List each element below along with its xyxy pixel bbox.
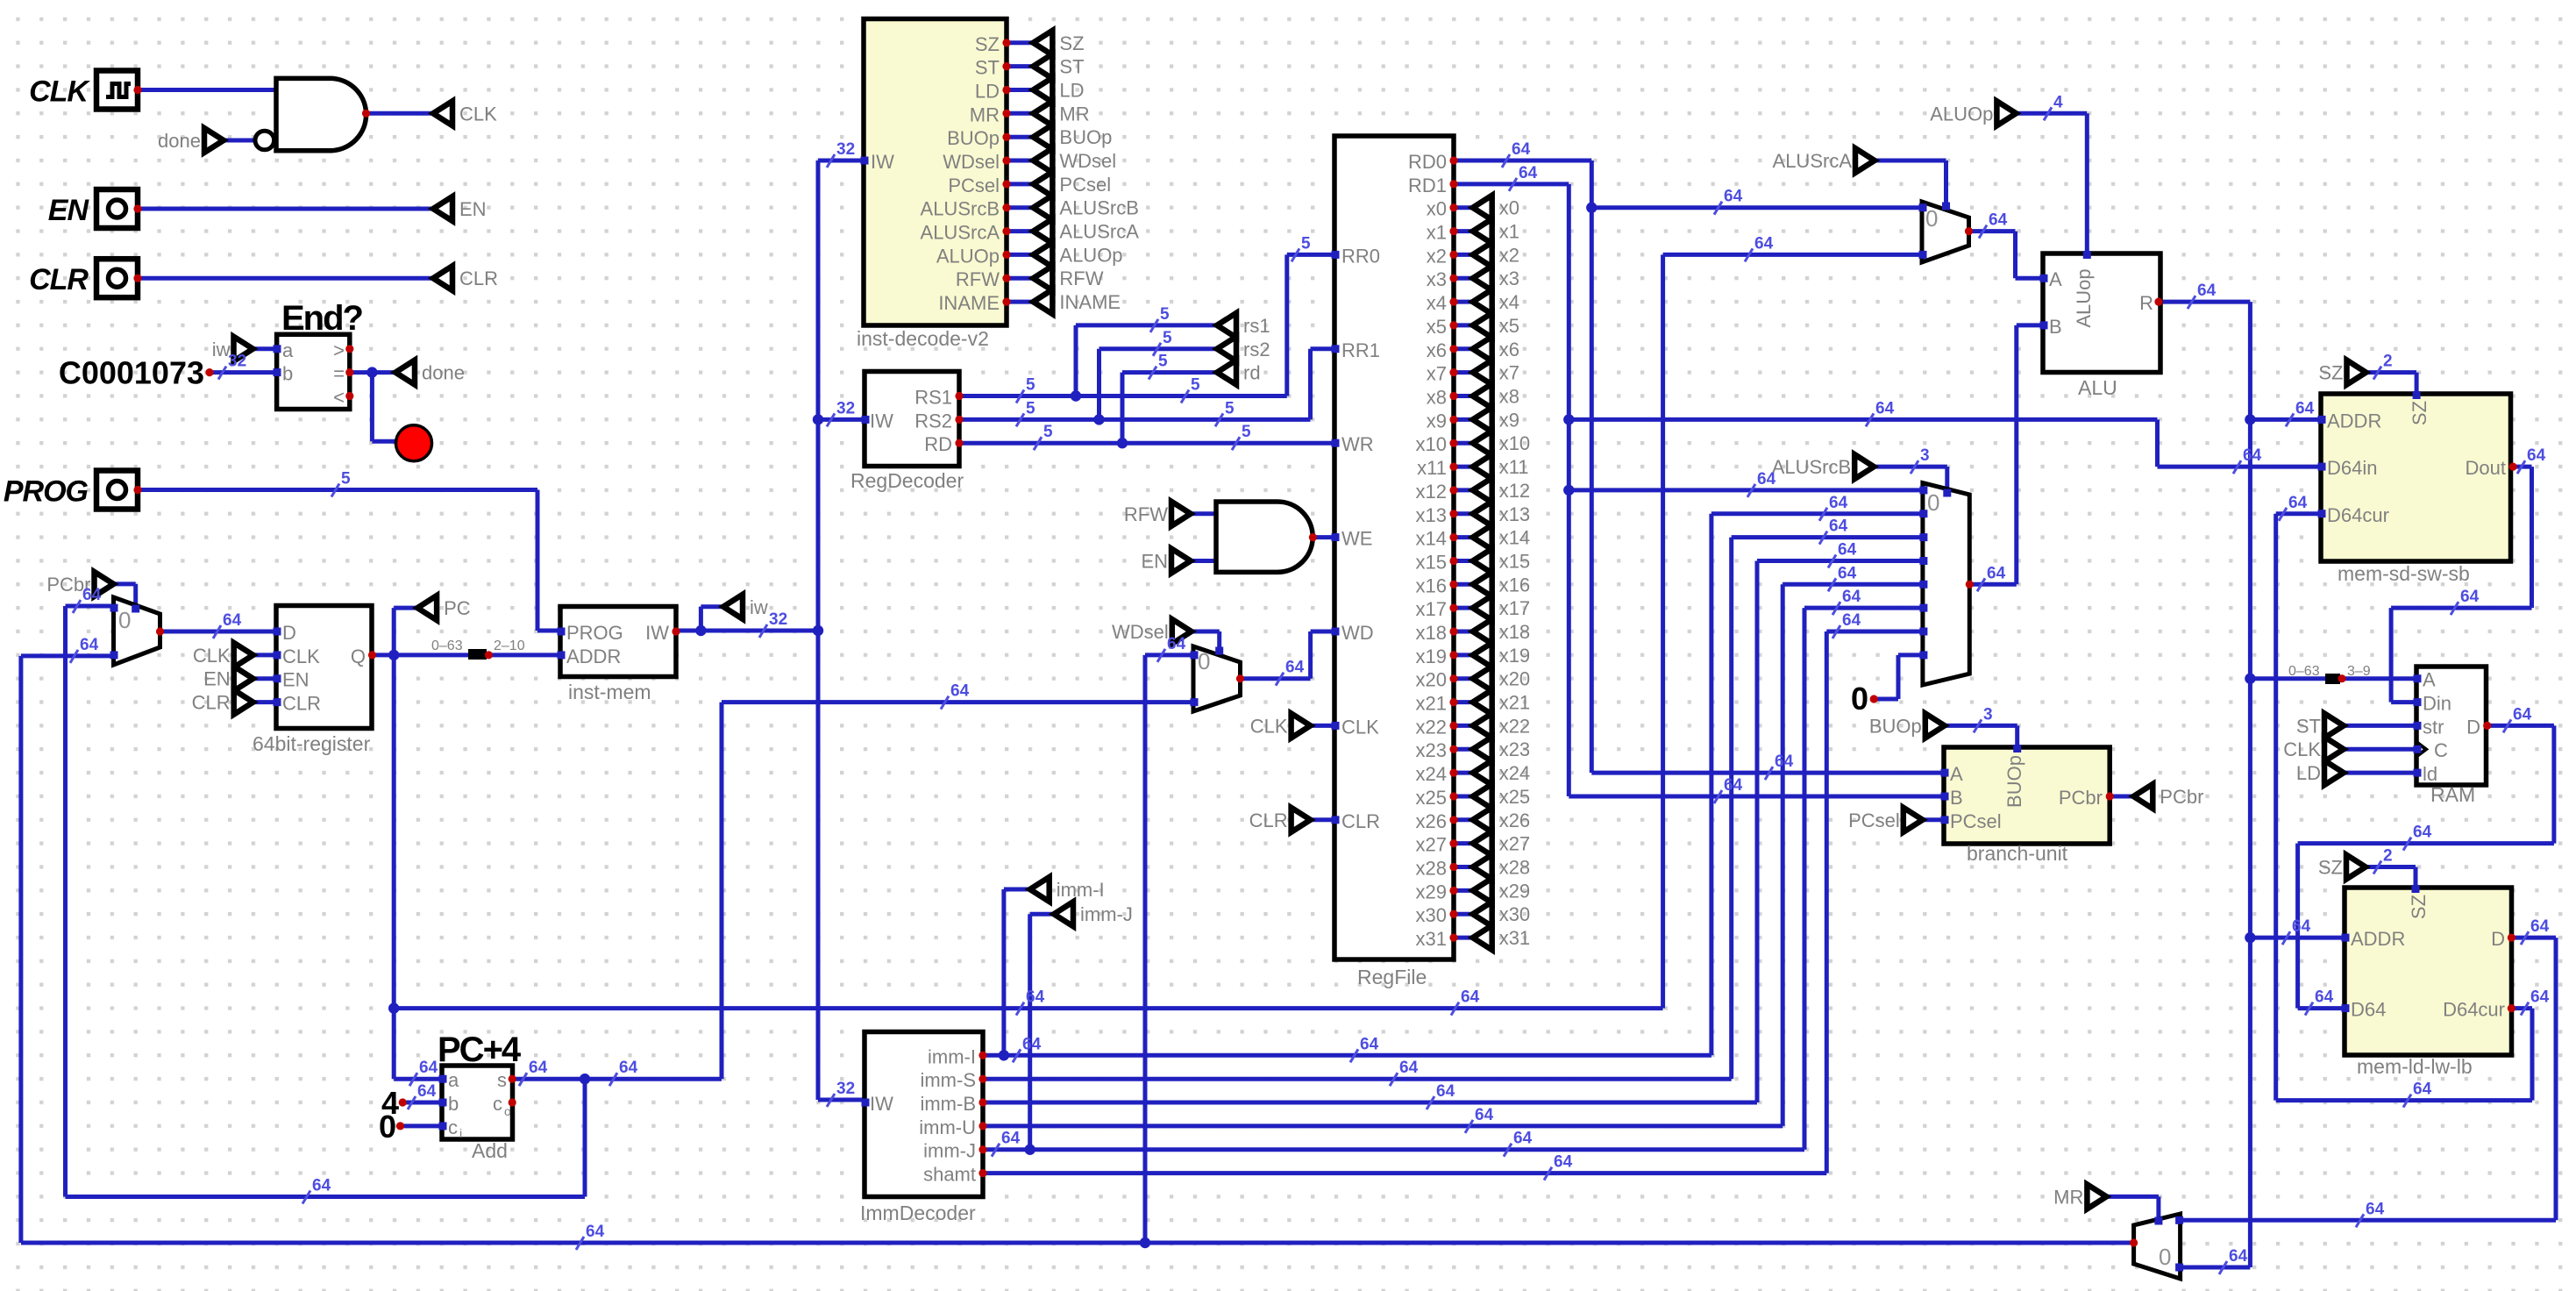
- tunnel LD (source): [2324, 760, 2344, 785]
- tunnel PC (sink): [417, 596, 437, 620]
- svg-text:5: 5: [1225, 399, 1235, 417]
- tunnel PCsel (source): [1904, 808, 1923, 832]
- svg-text:x30: x30: [1499, 903, 1530, 925]
- tunnel PCbr (sink): [2133, 784, 2153, 809]
- svg-text:64: 64: [1461, 988, 1480, 1007]
- svg-text:64: 64: [1842, 611, 1861, 630]
- wire RFW tunnel to WE gate: [1191, 511, 1216, 516]
- svg-text:64: 64: [223, 611, 242, 630]
- svg-text:64: 64: [2197, 282, 2217, 300]
- svg-text:x6: x6: [1427, 339, 1447, 361]
- svg-text:SZ: SZ: [2408, 895, 2430, 919]
- wire EN tunnel to WE gate: [1191, 559, 1216, 563]
- svg-text:64: 64: [1167, 635, 1186, 653]
- svg-text:x13: x13: [1416, 504, 1447, 526]
- svg-text:RS1: RS1: [914, 387, 952, 409]
- tunnel BUOp (source): [1925, 713, 1945, 738]
- wire EN tunnel to register EN: [253, 676, 276, 681]
- svg-text:SZ: SZ: [1059, 32, 1084, 54]
- wire PC+4 sum to WDsel mux input 1: [512, 1077, 722, 1081]
- svg-text:PCsel: PCsel: [1950, 810, 2002, 832]
- svg-text:CLK: CLK: [1250, 715, 1288, 737]
- wire ALUSrcA mux output to ALU A: [1969, 229, 2016, 233]
- wire done tunnel to inverted input: [224, 139, 255, 143]
- svg-text:x8: x8: [1499, 386, 1519, 408]
- svg-text:x1: x1: [1499, 221, 1519, 243]
- junction RD1 at ALUSrcB: [1563, 485, 1574, 496]
- svg-text:64: 64: [312, 1177, 331, 1195]
- svg-text:x23: x23: [1416, 739, 1447, 761]
- wire imm-U net: [983, 1123, 1783, 1128]
- svg-text:64: 64: [2527, 446, 2546, 465]
- junction R at mem-ld ADDR: [2245, 932, 2255, 943]
- svg-text:64: 64: [2292, 917, 2311, 936]
- wire CLR tunnel to RegFile CLR: [1311, 817, 1334, 822]
- wire imm-J net: [983, 1147, 1804, 1152]
- svg-text:64: 64: [2366, 1200, 2385, 1218]
- svg-text:imm-U: imm-U: [919, 1116, 976, 1138]
- svg-text:SZ: SZ: [2318, 857, 2343, 879]
- svg-text:64: 64: [529, 1059, 548, 1077]
- wire mem-sd Dout to RAM Din: [2513, 465, 2531, 469]
- svg-text:64: 64: [1987, 564, 2006, 582]
- svg-text:x5: x5: [1499, 315, 1519, 337]
- bus label 2 at SZ top: [2373, 367, 2381, 380]
- svg-text:5: 5: [1158, 353, 1168, 371]
- svg-text:64: 64: [2530, 988, 2550, 1007]
- svg-text:LD: LD: [1059, 80, 1084, 102]
- decoder RegDecoder: [865, 372, 959, 467]
- svg-text:x14: x14: [1499, 527, 1530, 549]
- svg-text:0: 0: [1198, 648, 1210, 674]
- svg-text:64: 64: [1838, 564, 1857, 582]
- svg-text:x20: x20: [1416, 669, 1447, 691]
- wire imm-I net: [983, 1053, 1711, 1058]
- svg-text:rs1: rs1: [1243, 315, 1270, 337]
- svg-text:5: 5: [341, 470, 351, 489]
- wire CLK tunnel to RAM C: [2344, 747, 2416, 752]
- tunnel done (source): [204, 128, 224, 153]
- svg-text:64: 64: [419, 1059, 438, 1077]
- svg-text:64: 64: [1001, 1130, 1021, 1148]
- svg-text:x27: x27: [1416, 834, 1447, 856]
- bus label 4 at ALUOp: [2044, 107, 2052, 120]
- svg-text:LD: LD: [975, 81, 1000, 103]
- svg-text:D64cur: D64cur: [2327, 504, 2389, 526]
- tunnel EN (sink): [433, 196, 452, 221]
- wire LD tunnel to RAM ld: [2344, 771, 2416, 775]
- junction PC at Q output: [388, 650, 399, 660]
- svg-text:RAM: RAM: [2430, 783, 2475, 806]
- wire MR tunnel to MR mux select: [2106, 1195, 2159, 1199]
- wire PC+4 loop to PC mux input 0: [66, 604, 114, 609]
- junction RD at rd riser: [1117, 438, 1128, 448]
- svg-text:x28: x28: [1499, 857, 1530, 879]
- svg-text:C: C: [2434, 739, 2448, 761]
- tunnel CLR register (source): [234, 690, 253, 715]
- svg-text:x12: x12: [1416, 481, 1447, 503]
- svg-text:x6: x6: [1499, 339, 1519, 360]
- bus label 32 at RegDecoder IW: [827, 413, 835, 426]
- svg-text:done: done: [158, 130, 201, 152]
- wires RegFile x0-x31 to tunnels: [1454, 205, 1473, 210]
- svg-text:2: 2: [2383, 847, 2393, 866]
- svg-text:0: 0: [1927, 489, 1939, 516]
- svg-text:x25: x25: [1499, 786, 1530, 808]
- svg-text:x1: x1: [1427, 222, 1447, 244]
- wire writeback bus to PC mux input 1: [21, 653, 114, 658]
- svg-text:64: 64: [1724, 188, 1743, 206]
- svg-text:3: 3: [1920, 446, 1930, 465]
- LED halt indicator: [396, 425, 432, 461]
- svg-text:done: done: [422, 362, 465, 384]
- input CLR: [96, 259, 138, 297]
- decoder inst-decode-v2: [864, 19, 1007, 326]
- tunnel CLR (sink): [433, 266, 452, 290]
- svg-text:ALUop: ALUop: [2073, 268, 2095, 327]
- svg-text:mem-ld-lw-lb: mem-ld-lw-lb: [2357, 1055, 2473, 1078]
- svg-text:64: 64: [2288, 494, 2308, 512]
- svg-text:0: 0: [1851, 681, 1868, 717]
- tunnel MR (source): [2087, 1184, 2106, 1209]
- svg-text:INAME: INAME: [1059, 291, 1121, 313]
- svg-text:PCbr: PCbr: [2059, 787, 2103, 809]
- register file RegFile: [1334, 136, 1454, 959]
- svg-text:ST: ST: [2296, 715, 2321, 737]
- svg-text:64: 64: [619, 1059, 638, 1077]
- svg-text:ImmDecoder: ImmDecoder: [860, 1202, 976, 1224]
- svg-text:iw: iw: [750, 596, 768, 618]
- svg-text:ALUSrcB: ALUSrcB: [1772, 456, 1851, 478]
- tunnel imm-I (sink): [1030, 877, 1050, 902]
- svg-text:mem-sd-sw-sb: mem-sd-sw-sb: [2338, 562, 2470, 585]
- svg-text:ST: ST: [975, 57, 1000, 79]
- svg-text:64: 64: [1360, 1035, 1379, 1053]
- svg-text:ALUSrcB: ALUSrcB: [1059, 197, 1138, 219]
- tunnels for decode outputs (sinks): [1033, 31, 1052, 55]
- svg-text:64: 64: [2229, 1247, 2248, 1266]
- wire comparator = output to done tunnel and LED: [350, 370, 395, 374]
- svg-text:D64: D64: [2351, 999, 2386, 1021]
- svg-text:EN: EN: [1141, 551, 1168, 573]
- wire PC bus row 42 to ALUSrcA mux input 1: [394, 1006, 1662, 1010]
- svg-text:2–10: 2–10: [494, 638, 525, 653]
- wire ALUSrcB mux output to ALU B: [1969, 582, 2017, 587]
- wire WE gate output to RegFile WE: [1313, 535, 1334, 539]
- tunnel imm-J (sink): [1054, 902, 1073, 926]
- tunnel CLK register (source): [234, 643, 253, 667]
- svg-text:0–63: 0–63: [431, 638, 463, 653]
- svg-text:3: 3: [1983, 705, 1993, 724]
- svg-text:RS2: RS2: [914, 410, 952, 432]
- junction IW main: [813, 625, 823, 636]
- svg-text:imm-J: imm-J: [923, 1140, 976, 1162]
- input CLK: [96, 71, 138, 110]
- svg-text:x9: x9: [1499, 409, 1519, 431]
- wire SZ tunnel to mem-ld SZ: [2366, 865, 2416, 869]
- svg-text:x12: x12: [1499, 480, 1530, 502]
- svg-text:PROG: PROG: [4, 475, 89, 509]
- memory mem-sd-sw-sb: [2321, 394, 2511, 561]
- tunnel CLR RegFile (source): [1292, 808, 1311, 832]
- svg-text:WDsel: WDsel: [1112, 621, 1169, 643]
- svg-text:64: 64: [1829, 494, 1848, 512]
- adder PC+4: [442, 1066, 513, 1139]
- svg-text:64: 64: [2315, 988, 2334, 1007]
- svg-text:x23: x23: [1499, 738, 1530, 760]
- junction writeback bus to WDsel riser: [1140, 1238, 1150, 1248]
- svg-text:64: 64: [1829, 517, 1848, 536]
- svg-text:SZ: SZ: [975, 33, 1000, 55]
- svg-text:x21: x21: [1416, 693, 1447, 715]
- wire PROG input to inst-mem PROG: [138, 488, 537, 492]
- svg-text:CLK: CLK: [459, 103, 497, 125]
- svg-text:x11: x11: [1499, 456, 1529, 478]
- svg-text:64: 64: [950, 682, 970, 701]
- svg-text:Add: Add: [472, 1139, 508, 1162]
- wire CLR input to CLR tunnel: [138, 276, 433, 281]
- tunnel CLK RegFile (source): [1292, 713, 1311, 738]
- svg-text:64: 64: [2413, 1081, 2432, 1099]
- svg-text:x20: x20: [1499, 668, 1530, 690]
- svg-text:64: 64: [1775, 752, 1794, 771]
- svg-text:ALUSrcB: ALUSrcB: [921, 198, 1000, 220]
- svg-text:64: 64: [1842, 588, 1861, 606]
- tunnel done (sink): [395, 360, 415, 385]
- junction R at RAM splitter: [2245, 674, 2255, 684]
- svg-text:x11: x11: [1417, 457, 1447, 479]
- svg-text:3–9: 3–9: [2347, 664, 2371, 679]
- svg-text:x30: x30: [1416, 904, 1447, 926]
- svg-text:D64cur: D64cur: [2443, 999, 2505, 1021]
- tunnel PCbr (source): [95, 572, 114, 596]
- svg-text:CLR: CLR: [1249, 810, 1288, 831]
- svg-text:MR: MR: [970, 103, 1000, 125]
- svg-text:x26: x26: [1416, 810, 1447, 832]
- tunnel EN register (source): [234, 667, 253, 691]
- svg-text:CLK: CLK: [2283, 738, 2321, 760]
- mux WDsel: [1193, 646, 1241, 711]
- svg-text:b: b: [448, 1093, 459, 1115]
- svg-text:32: 32: [769, 610, 787, 629]
- svg-text:64: 64: [2513, 705, 2532, 724]
- svg-text:imm-B: imm-B: [920, 1093, 976, 1115]
- svg-text:5: 5: [1160, 305, 1170, 324]
- svg-text:64: 64: [1989, 211, 2008, 230]
- svg-text:2: 2: [2383, 353, 2393, 371]
- memory inst-mem: [560, 607, 676, 677]
- svg-text:BUOp: BUOp: [1059, 126, 1112, 148]
- wire PC net: register Q to splitter and PC tunnel: [373, 653, 469, 657]
- wire imm-B net: [983, 1101, 1757, 1105]
- svg-text:64: 64: [1757, 470, 1776, 489]
- svg-text:x17: x17: [1416, 598, 1447, 620]
- svg-text:D: D: [2466, 716, 2480, 738]
- svg-text:x29: x29: [1416, 881, 1447, 902]
- wire mem-ld D64cur loop to mem-sd D64cur: [2511, 1006, 2532, 1010]
- svg-text:x4: x4: [1499, 291, 1519, 313]
- tunnel ALUOp (source): [1996, 101, 2016, 125]
- svg-text:WD: WD: [1341, 622, 1374, 644]
- svg-text:x18: x18: [1499, 621, 1530, 643]
- wire RS2 to RR1: [959, 417, 1311, 422]
- svg-text:BUOp: BUOp: [947, 127, 1000, 149]
- svg-text:4: 4: [2053, 93, 2063, 111]
- svg-text:WR: WR: [1341, 433, 1374, 455]
- junction node done: [366, 367, 377, 377]
- svg-text:WE: WE: [1341, 528, 1372, 550]
- svg-text:IW: IW: [870, 410, 893, 432]
- svg-text:32: 32: [836, 399, 855, 417]
- wire iw tunnel to comparator a: [253, 346, 277, 351]
- svg-text:0: 0: [118, 607, 131, 633]
- tunnels x0-x31 (sinks): [1473, 196, 1492, 220]
- svg-text:x7: x7: [1499, 362, 1519, 384]
- svg-text:x28: x28: [1416, 858, 1447, 880]
- svg-text:5: 5: [1043, 423, 1053, 441]
- svg-text:D64in: D64in: [2327, 457, 2377, 479]
- svg-text:64: 64: [1022, 1035, 1042, 1053]
- svg-text:x3: x3: [1499, 267, 1519, 289]
- wire shamt net: [983, 1171, 1826, 1175]
- wire WDsel tunnel to WDsel mux select: [1192, 630, 1220, 634]
- svg-text:x5: x5: [1427, 316, 1447, 338]
- tunnel CLK (sink): [433, 101, 452, 125]
- svg-text:64: 64: [1724, 776, 1743, 795]
- svg-text:EN: EN: [459, 198, 487, 220]
- svg-text:RegDecoder: RegDecoder: [850, 469, 964, 492]
- mux MR writeback: [2134, 1214, 2181, 1279]
- svg-text:PC+4: PC+4: [438, 1031, 522, 1069]
- svg-text:x18: x18: [1416, 622, 1447, 644]
- wire branch-unit PCbr to tunnel: [2110, 795, 2133, 799]
- svg-text:32: 32: [836, 1080, 855, 1098]
- svg-text:64: 64: [1475, 1106, 1494, 1124]
- mux ALUSrcA: [1922, 202, 1969, 262]
- svg-text:A: A: [2049, 268, 2062, 290]
- tunnel CLK RAM (source): [2324, 737, 2344, 761]
- svg-text:x24: x24: [1499, 762, 1530, 784]
- svg-text:EN: EN: [282, 669, 310, 691]
- bus label 32 at decode IW: [827, 154, 835, 168]
- wire RD0 net to ALUSrcA mux and branch A: [1454, 159, 1591, 163]
- wire AND output to CLK tunnel: [366, 111, 434, 116]
- AND gate U1 with inverted input: [276, 78, 366, 150]
- tunnel iw (source): [234, 337, 253, 361]
- svg-text:64: 64: [1519, 164, 1538, 182]
- svg-text:64: 64: [1754, 234, 1774, 253]
- svg-text:x15: x15: [1499, 551, 1530, 573]
- wire ST tunnel to RAM str: [2344, 724, 2416, 728]
- svg-text:x19: x19: [1416, 645, 1447, 667]
- svg-text:x4: x4: [1427, 292, 1447, 314]
- svg-text:x7: x7: [1427, 363, 1447, 385]
- junction PC at row-42 bus: [388, 1002, 399, 1013]
- svg-text:RR1: RR1: [1341, 339, 1380, 361]
- svg-text:32: 32: [836, 140, 855, 159]
- svg-text:5: 5: [1191, 376, 1200, 395]
- svg-text:rd: rd: [1243, 362, 1261, 384]
- svg-text:inst-decode-v2: inst-decode-v2: [857, 327, 989, 350]
- svg-text:ALUSrcA: ALUSrcA: [1773, 150, 1853, 172]
- svg-text:D: D: [2491, 928, 2505, 950]
- svg-text:RegFile: RegFile: [1357, 966, 1427, 988]
- svg-text:x0: x0: [1499, 197, 1519, 219]
- svg-text:>: >: [333, 339, 345, 361]
- wire EN input to EN tunnel: [138, 207, 433, 211]
- svg-text:RFW: RFW: [956, 268, 1000, 290]
- svg-text:a: a: [282, 339, 294, 361]
- wire PC mux output to register D: [160, 630, 277, 634]
- svg-text:i: i: [459, 1126, 462, 1140]
- svg-text:R: R: [2139, 292, 2153, 314]
- svg-text:64: 64: [1399, 1059, 1419, 1077]
- svg-text:64: 64: [1875, 399, 1895, 417]
- svg-text:str: str: [2423, 716, 2444, 738]
- svg-text:x3: x3: [1427, 268, 1447, 290]
- wire constant 4 to Add b: [402, 1101, 442, 1105]
- svg-text:CLR: CLR: [1341, 810, 1380, 832]
- wire BUOp tunnel to branch-unit: [1945, 724, 2017, 728]
- svg-text:64: 64: [1512, 140, 1531, 159]
- svg-text:64: 64: [2295, 399, 2315, 417]
- tunnel rs2 (sink): [1217, 337, 1236, 361]
- junction RS2 at rs2 riser: [1093, 414, 1104, 424]
- wire CLK tunnel to register CLK: [253, 653, 276, 657]
- svg-text:64: 64: [1285, 659, 1305, 677]
- wire IW net from inst-mem: [676, 629, 818, 633]
- wire mem-ld D to MR mux input 0: [2511, 936, 2556, 940]
- svg-text:x0: x0: [1427, 198, 1447, 220]
- svg-text:BUOp: BUOp: [1869, 715, 1922, 737]
- tunnel WDsel (source): [1172, 619, 1192, 644]
- ALU U2: [2043, 253, 2160, 373]
- junction R at mem-sd ADDR: [2245, 414, 2255, 424]
- svg-text:x13: x13: [1499, 503, 1530, 525]
- svg-text:0: 0: [379, 1109, 396, 1145]
- wire constant C0001073 to comparator b: [210, 370, 277, 374]
- svg-text:PCsel: PCsel: [948, 175, 1000, 196]
- svg-text:x31: x31: [1499, 927, 1530, 949]
- svg-text:x17: x17: [1499, 597, 1530, 619]
- wire CLK tunnel to RegFile CLK: [1311, 724, 1334, 728]
- wire ALUSrcA tunnel to mux select: [1875, 159, 1946, 163]
- svg-text:x2: x2: [1427, 245, 1447, 267]
- svg-text:ALUOp: ALUOp: [936, 245, 1000, 267]
- svg-text:imm-S: imm-S: [920, 1069, 976, 1091]
- wire SZ tunnel to mem-sd SZ: [2366, 370, 2417, 374]
- svg-text:ALU: ALU: [2078, 376, 2117, 399]
- svg-text:b: b: [282, 363, 293, 385]
- svg-text:CLK: CLK: [29, 75, 90, 109]
- tunnel ST (source): [2324, 713, 2344, 738]
- tunnel iw (sink): [723, 595, 743, 619]
- svg-text:64: 64: [2413, 824, 2432, 842]
- svg-text:x21: x21: [1499, 692, 1530, 714]
- svg-text:inst-mem: inst-mem: [568, 681, 651, 703]
- wires inst-decode-v2 outputs to tunnels: [1007, 40, 1033, 45]
- svg-text:ADDR: ADDR: [2351, 928, 2405, 950]
- svg-text:WDsel: WDsel: [1059, 150, 1116, 172]
- svg-text:5: 5: [1026, 399, 1035, 417]
- svg-text:RD: RD: [924, 433, 952, 455]
- svg-text:PC: PC: [444, 597, 471, 619]
- wire ALUSrcB tunnel to mux select: [1874, 465, 1947, 469]
- register 64bit-register: [276, 606, 372, 729]
- svg-text:RR0: RR0: [1341, 245, 1380, 267]
- bus label 32 at iw: [759, 624, 767, 638]
- svg-text:5: 5: [1242, 423, 1251, 441]
